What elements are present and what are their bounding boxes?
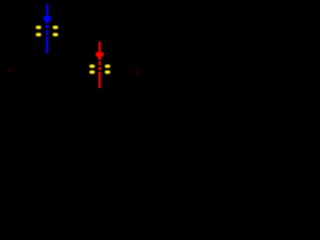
- faded field blob left: [8, 68, 13, 73]
- wire: red dipole shaft: [98, 42, 100, 88]
- background: [0, 0, 150, 90]
- charge pair left-top (blue element): [36, 26, 42, 30]
- wire: blue dipole shaft: [46, 4, 48, 53]
- wire gap at lower charge row (blue): [45, 35, 48, 36]
- wire gap at lower charge row (red): [98, 70, 101, 71]
- wire gap below arrow tip (blue): [45, 23, 48, 24]
- charge pair right-bottom (blue element): [53, 33, 59, 37]
- wire gap at upper charge row (blue): [45, 29, 48, 30]
- current arrow head (red, pointing down): [96, 52, 104, 59]
- charge pair left-bottom (red element): [89, 70, 95, 74]
- charge pair right-top (blue element): [53, 26, 59, 30]
- charge pair left-top (red element): [89, 64, 95, 68]
- current arrow head (blue, pointing down): [43, 16, 51, 23]
- faded field blob right: [134, 69, 139, 75]
- charge pair right-top (red element): [105, 64, 111, 68]
- charge pair left-bottom (blue element): [36, 33, 42, 37]
- charge pair right-bottom (red element): [105, 70, 111, 74]
- wire gap at upper charge row (red): [98, 66, 101, 67]
- wire gap below arrow tip (red): [98, 60, 101, 61]
